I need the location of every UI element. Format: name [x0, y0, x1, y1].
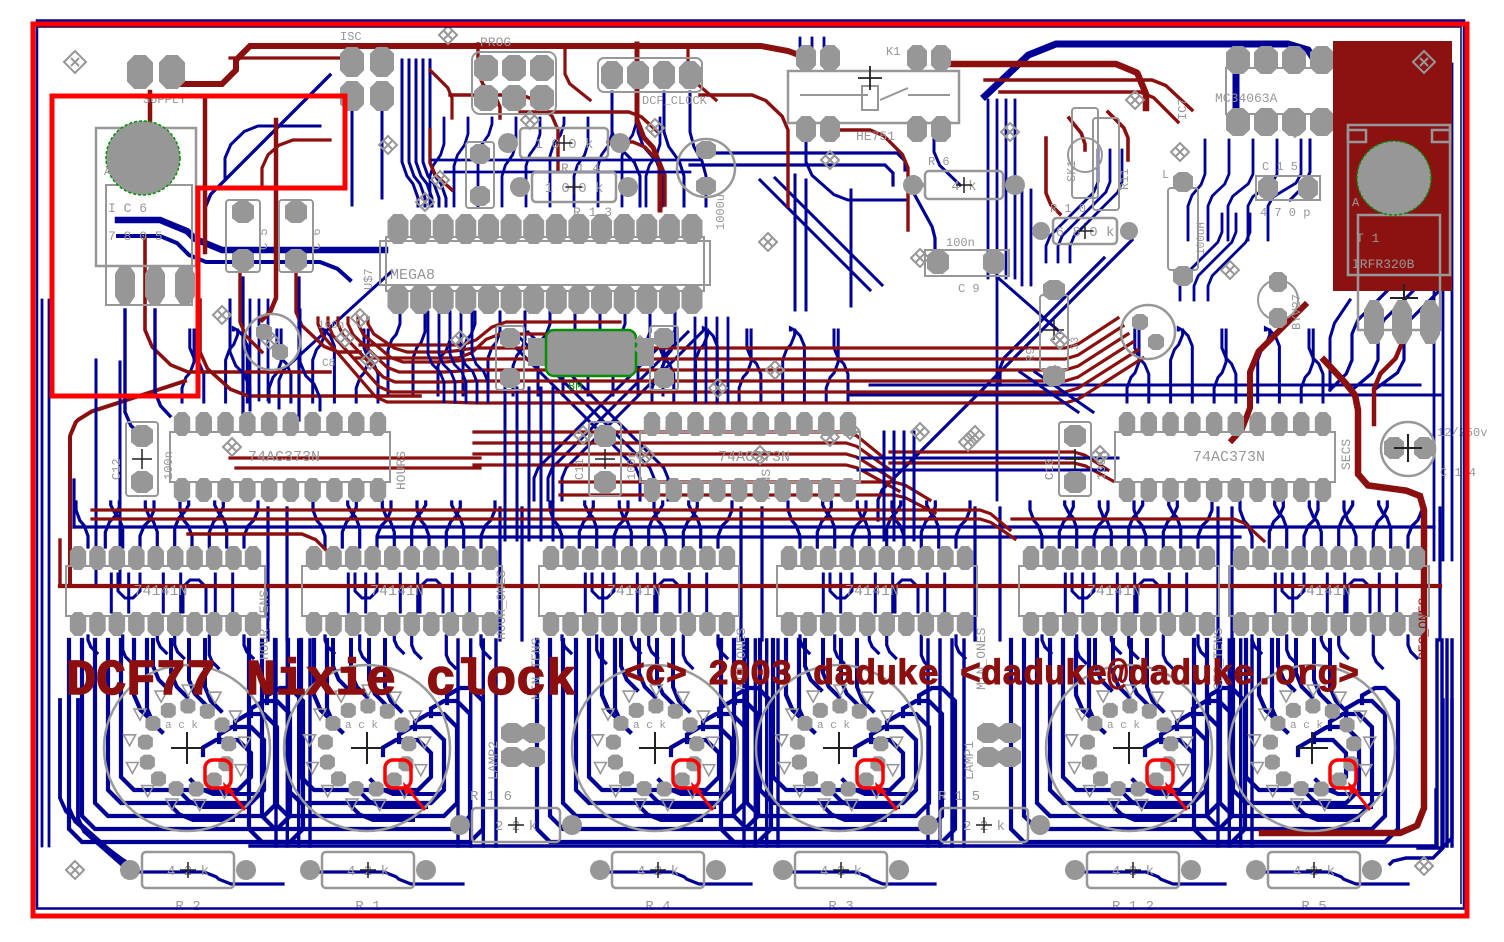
svg-text:HOUR_ONES: HOUR_ONES: [494, 570, 509, 640]
svg-text:DCF_CLOCK: DCF_CLOCK: [642, 94, 708, 108]
svg-text:a c k: a c k: [165, 720, 198, 732]
svg-text:4 7 0 p: 4 7 0 p: [1260, 206, 1310, 220]
svg-text:8M: 8M: [568, 380, 582, 394]
svg-text:L: L: [1162, 168, 1169, 182]
svg-text:ISC: ISC: [340, 30, 362, 44]
svg-text:a c k: a c k: [1107, 720, 1140, 732]
svg-text:100n: 100n: [1095, 451, 1109, 480]
svg-text:IRFR320B: IRFR320B: [1352, 257, 1415, 272]
svg-text:C 5: C 5: [257, 228, 271, 250]
svg-text:74AC373N: 74AC373N: [1193, 449, 1265, 466]
svg-text:100uH: 100uH: [1196, 222, 1208, 255]
svg-text:74141N: 74141N: [134, 583, 188, 600]
svg-text:7 8 0 5: 7 8 0 5: [108, 229, 163, 244]
svg-text:74141N: 74141N: [845, 583, 899, 600]
svg-text:T 1: T 1: [1356, 231, 1380, 246]
svg-text:SEC_ONES: SEC_ONES: [1416, 597, 1431, 660]
svg-text:74141N: 74141N: [607, 583, 661, 600]
svg-text:33: 33: [1070, 337, 1082, 350]
svg-text:LAMP1: LAMP1: [962, 741, 977, 780]
svg-text:R 2: R 2: [175, 899, 200, 915]
svg-text:<c> 2003 daduke <daduke@daduke: <c> 2003 daduke <daduke@daduke.org>: [624, 655, 1359, 695]
svg-text:a c k: a c k: [1290, 720, 1323, 732]
svg-text:R 5: R 5: [1301, 899, 1326, 915]
svg-text:R 1 4: R 1 4: [561, 161, 600, 176]
svg-text:MC34063A: MC34063A: [1215, 91, 1278, 106]
svg-text:R 3: R 3: [828, 899, 853, 915]
svg-text:LAMP2: LAMP2: [486, 741, 501, 780]
svg-text:R 4: R 4: [645, 899, 670, 915]
svg-text:DCF77 Nixie clock: DCF77 Nixie clock: [66, 653, 576, 710]
svg-text:a c k: a c k: [633, 720, 666, 732]
svg-text:C8: C8: [322, 358, 335, 370]
svg-text:C12: C12: [110, 458, 124, 480]
svg-text:100n: 100n: [318, 320, 344, 332]
svg-text:74AC373N: 74AC373N: [248, 449, 320, 466]
svg-text:R 1 5: R 1 5: [938, 789, 980, 805]
svg-text:74141N: 74141N: [1297, 583, 1351, 600]
svg-text:R 1 0: R 1 0: [1050, 202, 1086, 216]
svg-text:HOUR_TENS: HOUR_TENS: [257, 590, 272, 660]
svg-text:U$7: U$7: [362, 268, 376, 290]
svg-text:C 1 5: C 1 5: [1262, 160, 1298, 174]
svg-text:74141N: 74141N: [1087, 583, 1141, 600]
svg-text:PROG: PROG: [480, 35, 511, 50]
svg-text:12/250v: 12/250v: [1437, 426, 1487, 440]
svg-text:HE751: HE751: [856, 129, 895, 144]
svg-text:R 1 2: R 1 2: [1112, 899, 1154, 915]
svg-text:R9: R9: [1024, 348, 1038, 362]
svg-text:A: A: [1352, 196, 1360, 210]
svg-text:A: A: [104, 165, 112, 179]
svg-text:R 1 6: R 1 6: [470, 789, 512, 805]
svg-text:K1: K1: [886, 45, 900, 59]
svg-text:R 1: R 1: [355, 899, 380, 915]
svg-text:MEGA8: MEGA8: [390, 267, 435, 284]
svg-text:C10: C10: [1043, 458, 1057, 480]
svg-text:a c k: a c k: [817, 720, 850, 732]
svg-text:C 6: C 6: [310, 228, 324, 250]
svg-text:IC7: IC7: [1176, 98, 1190, 120]
svg-text:C 9: C 9: [958, 282, 980, 296]
svg-text:R 1 3: R 1 3: [573, 205, 612, 220]
svg-text:100n: 100n: [946, 236, 975, 250]
svg-text:MINS: MINS: [759, 469, 774, 500]
svg-text:a c k: a c k: [345, 720, 378, 732]
svg-text:R11: R11: [1118, 168, 1132, 190]
svg-text:100n: 100n: [162, 451, 176, 480]
svg-text:I C 6: I C 6: [108, 201, 147, 216]
svg-text:SECS: SECS: [1339, 439, 1354, 470]
svg-text:1000u: 1000u: [714, 194, 728, 230]
svg-text:74141N: 74141N: [370, 583, 424, 600]
svg-text:C11: C11: [573, 458, 587, 480]
svg-text:BYV27: BYV27: [1290, 294, 1304, 330]
svg-text:C 1 4: C 1 4: [1440, 466, 1476, 480]
svg-text:R 6: R 6: [928, 155, 950, 169]
svg-text:HOURS: HOURS: [394, 451, 409, 490]
